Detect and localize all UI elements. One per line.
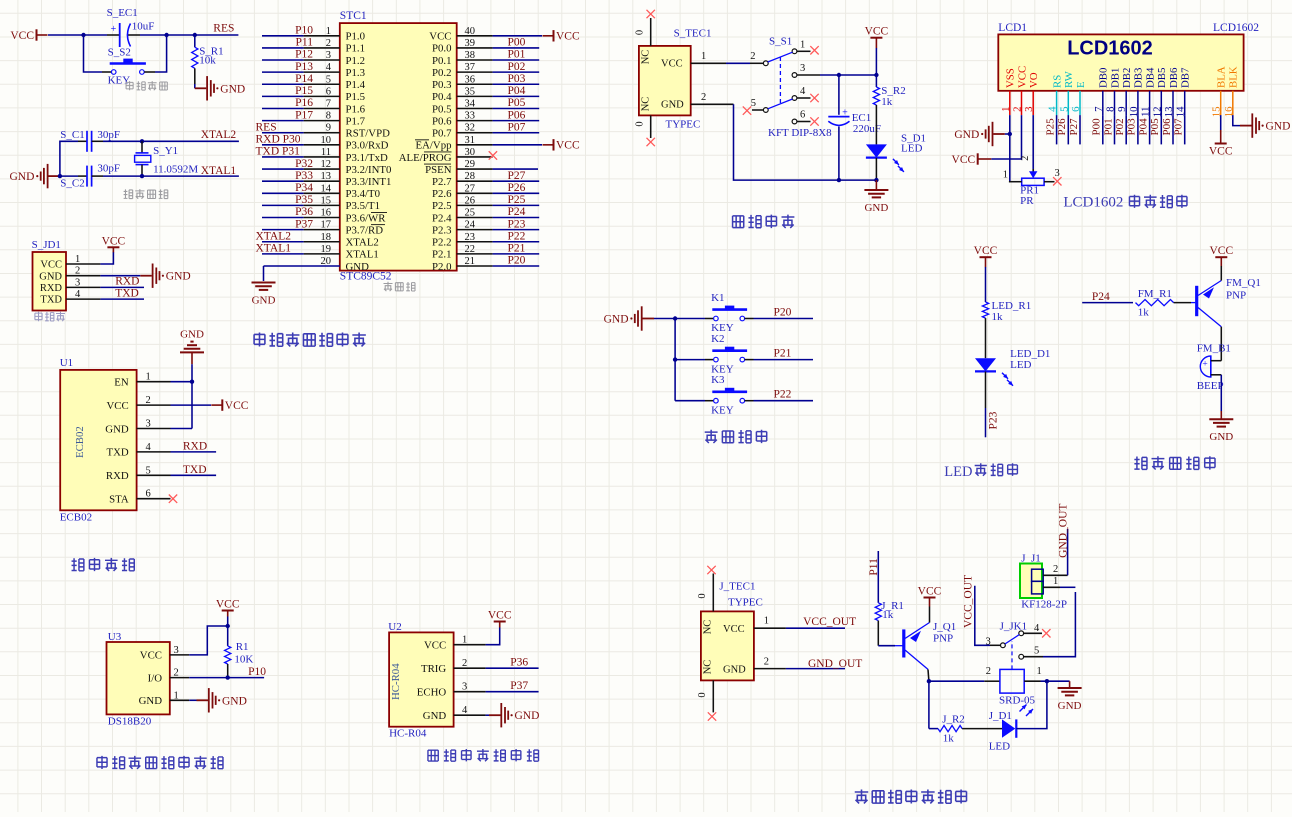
wire pin4 gnd [486, 714, 489, 716]
svg-text:GND: GND [604, 314, 629, 326]
svg-text:+: + [111, 24, 117, 35]
svg-text:P36: P36 [295, 206, 313, 218]
resistor J_R2 1k [938, 725, 962, 731]
wire to VCC [493, 35, 542, 37]
wire S_C1 to XTAL2 [103, 140, 142, 142]
svg-text:EN: EN [114, 377, 129, 389]
svg-text:VCC: VCC [952, 154, 976, 166]
power port GND (power circuit) [875, 180, 877, 189]
capacitor S_EC1 10uF (polarized) [107, 34, 120, 36]
svg-text:VCC: VCC [556, 31, 580, 43]
svg-text:4: 4 [800, 86, 806, 97]
svg-text:P21: P21 [774, 348, 792, 360]
svg-text:PR: PR [1020, 195, 1034, 207]
wire TXD [100, 298, 144, 300]
svg-text:P0.6: P0.6 [432, 115, 452, 127]
svg-text:VO: VO [1028, 72, 1040, 88]
svg-text:VCC: VCC [140, 650, 162, 662]
no-connect X pin30 [489, 151, 497, 159]
wire [493, 120, 540, 122]
svg-text:P23: P23 [988, 411, 1000, 429]
pin 0 top with X [650, 18, 652, 46]
svg-text:P33: P33 [295, 170, 313, 182]
svg-text:RES: RES [256, 121, 277, 133]
svg-text:GND: GND [346, 261, 370, 273]
svg-text:TYPEC: TYPEC [728, 596, 763, 608]
svg-text:2: 2 [1020, 156, 1031, 161]
svg-text:XTAL2: XTAL2 [346, 237, 379, 249]
wire [262, 132, 304, 134]
svg-text:ECB02: ECB02 [60, 512, 92, 524]
svg-text:RXD P30: RXD P30 [256, 134, 301, 146]
capacitor S_C2 30pF [78, 175, 87, 177]
title 环境温度采集模块 [97, 756, 107, 769]
svg-text:P06: P06 [1161, 118, 1173, 136]
svg-text:P1.6: P1.6 [346, 103, 366, 115]
wire [493, 192, 540, 194]
wire [262, 253, 304, 255]
wire lcd pin [1114, 115, 1116, 144]
svg-text:VCC: VCC [40, 260, 62, 271]
svg-text:RST/VPD: RST/VPD [346, 128, 391, 140]
svg-text:P01: P01 [1102, 118, 1114, 135]
wire [262, 83, 304, 85]
power port GND (U1) [180, 342, 204, 353]
power port VCC (led) [980, 256, 992, 258]
svg-text:RS: RS [1051, 75, 1063, 88]
svg-text:P3.7/RD: P3.7/RD [346, 224, 384, 236]
svg-text:KEY: KEY [711, 404, 734, 416]
svg-text:P0.4: P0.4 [432, 91, 452, 103]
svg-text:P25: P25 [1044, 118, 1056, 136]
svg-text:P3.1/TxD: P3.1/TxD [346, 152, 388, 164]
resistor S_R2 1k [875, 75, 877, 87]
svg-text:P26: P26 [1056, 118, 1068, 136]
wire [493, 47, 540, 49]
svg-text:P20: P20 [774, 307, 792, 319]
svg-text:3: 3 [75, 277, 80, 288]
wire resistor to led [875, 105, 877, 144]
title 下载口 [35, 312, 42, 321]
wire S_C2 to XTAL1 [103, 175, 239, 177]
svg-text:0: 0 [697, 593, 708, 598]
power port GND (crystal) [41, 164, 60, 188]
svg-text:S_EC1: S_EC1 [107, 7, 138, 19]
title 按键电路 [705, 430, 718, 443]
power port VCC (U2) [494, 621, 506, 623]
svg-text:LED: LED [901, 142, 922, 154]
svg-text:LCD1602: LCD1602 [1067, 38, 1153, 60]
svg-text:DB6: DB6 [1168, 67, 1180, 88]
svg-text:6: 6 [800, 110, 805, 121]
wire pin1 to switch [726, 62, 750, 64]
svg-text:P20: P20 [508, 255, 526, 267]
svg-text:DS18B20: DS18B20 [108, 716, 152, 728]
svg-text:1k: 1k [1138, 307, 1150, 319]
svg-text:6: 6 [146, 489, 151, 500]
svg-text:TXD P31: TXD P31 [256, 146, 301, 158]
svg-text:P2.1: P2.1 [432, 249, 452, 261]
svg-text:GND: GND [222, 695, 247, 707]
wire down-left branch to key [84, 35, 103, 72]
svg-text:P0.1: P0.1 [432, 55, 452, 67]
svg-text:DB3: DB3 [1133, 68, 1145, 88]
wire buzzer to gnd [1220, 375, 1222, 411]
wire key to RES net [155, 35, 167, 72]
wire lcd pin [1172, 115, 1174, 144]
svg-text:P02: P02 [508, 61, 526, 73]
svg-text:P36: P36 [510, 657, 528, 669]
wire [493, 95, 540, 97]
svg-text:GND: GND [180, 329, 204, 341]
svg-text:J_R2: J_R2 [942, 714, 965, 726]
svg-text:ALE/PROG: ALE/PROG [399, 152, 452, 164]
wire VCC to S_EC1 [48, 34, 107, 36]
svg-text:LED: LED [989, 740, 1010, 752]
svg-text:S_C1: S_C1 [60, 129, 84, 141]
svg-text:P1.7: P1.7 [346, 115, 366, 127]
svg-text:XTAL1: XTAL1 [201, 165, 237, 177]
junction node [1008, 132, 1012, 136]
svg-text:P2.6: P2.6 [432, 188, 452, 200]
svg-text:P07: P07 [508, 121, 526, 133]
svg-text:GND: GND [1058, 700, 1082, 712]
svg-text:HC-R04: HC-R04 [389, 728, 427, 740]
svg-text:P01: P01 [508, 49, 526, 61]
svg-text:P0.7: P0.7 [432, 128, 452, 140]
svg-text:BLK: BLK [1228, 66, 1240, 88]
svg-text:VCC: VCC [424, 640, 446, 652]
svg-text:VCC: VCC [225, 400, 249, 412]
led J_D1 [1002, 719, 1015, 737]
wire pin4 RXD [171, 451, 217, 453]
wire pin2 P10 [189, 677, 264, 679]
svg-text:VCC: VCC [106, 400, 128, 412]
svg-text:FM_B1: FM_B1 [1197, 343, 1231, 355]
svg-text:+: + [842, 108, 848, 119]
wire led to junction [1016, 681, 1047, 728]
svg-text:3: 3 [1055, 168, 1060, 179]
svg-text:GND: GND [661, 100, 684, 111]
power port VCC (relay) [924, 597, 936, 599]
wire pin2 P36 [486, 667, 539, 669]
svg-text:NC: NC [703, 660, 714, 675]
wire [262, 59, 304, 61]
capacitor EC1 220uF [838, 75, 840, 115]
svg-text:1k: 1k [943, 732, 955, 744]
svg-text:VCC: VCC [1209, 145, 1233, 157]
svg-text:P13: P13 [295, 61, 313, 73]
svg-text:GND: GND [954, 129, 979, 141]
wire [262, 35, 304, 37]
switch S_S2 KEY [111, 70, 116, 75]
switch K1 KEY [675, 318, 705, 320]
svg-text:1: 1 [701, 51, 706, 62]
lead key right pin [144, 71, 155, 73]
wire pin2 to VCC [171, 404, 212, 406]
wire gnd to keys [654, 318, 675, 320]
pot pin3 lead with X [1044, 181, 1054, 183]
svg-text:I/O: I/O [148, 672, 163, 684]
svg-text:P06: P06 [508, 109, 526, 121]
svg-text:3: 3 [174, 645, 179, 656]
wire pin2 gnd rail [734, 104, 877, 180]
wire [493, 241, 540, 243]
junction node [673, 316, 677, 320]
wire pin1 gnd [189, 699, 196, 701]
led S_D1 [866, 144, 887, 157]
svg-text:4: 4 [146, 442, 152, 453]
wire lcd pin [1102, 115, 1104, 144]
resistor S_R1 10k [194, 35, 196, 47]
svg-text:DB4: DB4 [1144, 67, 1156, 88]
relay SRD-05 [984, 680, 1000, 682]
svg-text:BEEP: BEEP [1197, 380, 1224, 392]
svg-text:P23: P23 [508, 218, 526, 230]
wire to VCC [493, 144, 542, 146]
svg-text:P1.5: P1.5 [346, 91, 366, 103]
svg-text:XTAL1: XTAL1 [256, 243, 292, 255]
power port GND (mcu) [252, 283, 276, 290]
svg-text:0: 0 [635, 30, 646, 35]
pin 2 GND [691, 103, 734, 105]
svg-text:KF128-2P: KF128-2P [1021, 598, 1067, 610]
svg-text:DB2: DB2 [1121, 68, 1133, 88]
svg-text:P34: P34 [295, 182, 313, 194]
power port VCC (U1) [211, 404, 222, 406]
power port VCC (S_JD1) [107, 246, 119, 248]
svg-text:GND: GND [9, 171, 34, 183]
svg-text:GND: GND [39, 271, 62, 282]
resistor LED_R1 1k [982, 302, 988, 318]
svg-text:P3.6/WR: P3.6/WR [346, 212, 387, 224]
svg-text:LED: LED [1010, 359, 1031, 371]
svg-text:P00: P00 [508, 37, 526, 49]
resistor J_R1 1k [875, 603, 881, 621]
svg-text:P02: P02 [1114, 118, 1126, 135]
wire resistor to led [985, 318, 987, 358]
wire [754, 400, 814, 402]
svg-text:J_Q1: J_Q1 [933, 621, 956, 633]
wire [262, 95, 304, 97]
capacitor S_C1 30pF [78, 140, 87, 142]
wire lcd pin [1056, 115, 1058, 144]
svg-text:K1: K1 [711, 292, 724, 304]
no-connect X STA [169, 495, 177, 503]
buzzer FM_B1 BEEP [1200, 356, 1211, 377]
pin 1 VCC_OUT [754, 627, 786, 629]
svg-text:XTAL1: XTAL1 [346, 249, 379, 261]
junction node [1045, 679, 1049, 683]
svg-text:TXD: TXD [40, 295, 62, 306]
wire [262, 107, 304, 109]
svg-text:2: 2 [750, 51, 755, 62]
svg-text:LCD1602: LCD1602 [1063, 195, 1123, 211]
svg-text:P22: P22 [774, 389, 792, 401]
wire cap to junction [140, 34, 167, 36]
svg-text:P17: P17 [295, 109, 313, 121]
power port VCC [543, 144, 554, 146]
svg-text:2: 2 [701, 92, 706, 103]
svg-text:RXD: RXD [106, 470, 129, 482]
wire [493, 265, 540, 267]
svg-text:P1.4: P1.4 [346, 79, 366, 91]
svg-text:GND: GND [723, 665, 746, 676]
wire pin3 [171, 428, 193, 430]
wire [262, 204, 304, 206]
wire [675, 359, 705, 361]
svg-text:1k: 1k [992, 311, 1004, 323]
svg-text:VCC: VCC [216, 599, 240, 611]
wire pin5 TXD [171, 474, 217, 476]
wire [493, 132, 540, 134]
svg-text:NC: NC [703, 620, 714, 635]
wire pin1 [171, 381, 193, 383]
wire lcd pin1 VSS [1009, 115, 1011, 182]
svg-text:GND: GND [166, 271, 191, 283]
svg-text:+: + [1202, 360, 1207, 370]
junction node [837, 73, 841, 77]
junction node [140, 174, 144, 178]
svg-text:P3.2/INT0: P3.2/INT0 [346, 164, 392, 176]
potentiometer PR1 body [1022, 178, 1044, 185]
svg-text:VCC: VCC [1016, 66, 1028, 88]
svg-text:5: 5 [146, 465, 151, 476]
title 晶振电路 [124, 189, 133, 198]
wire R1 to P10 [227, 664, 229, 678]
title 电源电路 [733, 216, 744, 228]
svg-text:DB5: DB5 [1156, 68, 1168, 88]
wire lcd pin [1160, 115, 1162, 144]
svg-text:TXD: TXD [115, 288, 139, 300]
junction node [81, 33, 85, 37]
wire [493, 229, 540, 231]
wire lcd pin3 VO to wiper [1032, 115, 1034, 169]
relay dashed actuator link [1011, 641, 1013, 669]
pot pin1 lead [1009, 181, 1022, 183]
lead to led [962, 728, 1002, 730]
svg-text:10k: 10k [199, 55, 216, 67]
svg-text:1: 1 [462, 635, 467, 646]
wire lcd pin [1149, 115, 1151, 144]
svg-text:P15: P15 [295, 85, 313, 97]
svg-text:4: 4 [462, 705, 468, 716]
wire pin2 to GND [100, 275, 140, 277]
svg-text:11.0592M: 11.0592M [153, 164, 198, 176]
svg-text:VCC_OUT: VCC_OUT [803, 616, 856, 628]
svg-text:RXD: RXD [40, 283, 63, 294]
wire [262, 120, 304, 122]
svg-text:K2: K2 [711, 333, 724, 345]
svg-text:P26: P26 [508, 182, 526, 194]
svg-text:FM_Q1: FM_Q1 [1226, 277, 1261, 289]
svg-text:GND: GND [105, 423, 129, 435]
wire vcc to resistor [985, 267, 987, 302]
power port VCC [543, 35, 554, 37]
svg-text:P10: P10 [248, 666, 266, 678]
svg-text:VCC: VCC [974, 245, 998, 257]
power port GND (buzzer) [1209, 419, 1233, 426]
pin 2 GND_OUT [754, 668, 786, 670]
svg-text:KEY: KEY [108, 75, 131, 87]
wire vcc to emitter [929, 607, 931, 623]
wire pin3 P37 [486, 691, 539, 693]
svg-text:10K: 10K [234, 654, 253, 666]
svg-text:0: 0 [697, 692, 708, 697]
svg-text:GND: GND [864, 202, 888, 214]
svg-text:PNP: PNP [1226, 290, 1246, 302]
svg-text:P2.5: P2.5 [432, 200, 452, 212]
svg-text:P12: P12 [295, 49, 313, 61]
wire [262, 241, 304, 243]
svg-text:P0.2: P0.2 [432, 67, 452, 79]
mcu STC89C52 body [340, 23, 457, 271]
svg-text:P3.0/RxD: P3.0/RxD [346, 140, 389, 152]
svg-text:3: 3 [800, 63, 805, 74]
potentiometer PR1 wiper arrow [1029, 171, 1037, 178]
svg-text:U2: U2 [388, 621, 401, 633]
svg-text:VCC_OUT: VCC_OUT [963, 575, 975, 628]
svg-text:S_Y1: S_Y1 [153, 145, 178, 157]
led LED_D1 [975, 358, 996, 371]
svg-text:S_TEC1: S_TEC1 [674, 28, 712, 40]
svg-text:1: 1 [800, 40, 805, 51]
svg-text:P21: P21 [508, 243, 526, 255]
svg-text:NC: NC [641, 50, 652, 65]
wire [493, 217, 540, 219]
svg-text:GND: GND [252, 295, 276, 307]
svg-text:P25: P25 [508, 194, 526, 206]
wire [493, 253, 540, 255]
wire vcc to pin3 [189, 626, 228, 655]
wire led row left [929, 728, 938, 730]
wire pin2 GND_OUT [1067, 529, 1069, 575]
wire [754, 318, 814, 320]
junction node [874, 73, 878, 77]
svg-text:2: 2 [1053, 564, 1058, 575]
junction node [58, 174, 62, 178]
svg-text:VCC: VCC [723, 624, 745, 635]
svg-text:1: 1 [764, 616, 769, 627]
svg-text:P10: P10 [295, 25, 313, 37]
svg-text:2: 2 [986, 666, 991, 677]
power port VCC (U3) [222, 610, 234, 612]
resistor R1 10K [227, 626, 229, 646]
junction node [193, 33, 197, 37]
wire VCC down [875, 48, 877, 75]
svg-text:P0.0: P0.0 [432, 43, 452, 55]
power port VCC (buzzer) [1215, 256, 1227, 258]
junction node [140, 139, 144, 143]
svg-text:P3.4/T0: P3.4/T0 [346, 188, 381, 200]
svg-text:P1.0: P1.0 [346, 31, 366, 43]
svg-text:P04: P04 [1137, 118, 1149, 136]
wire P24 to resistor [1082, 302, 1133, 304]
wire pin3 to VCC_OUT [990, 644, 1000, 646]
svg-text:VSS: VSS [1005, 68, 1017, 88]
junction node [226, 675, 230, 679]
wire lcd pin [1184, 115, 1186, 144]
svg-text:SRD-05: SRD-05 [999, 694, 1036, 706]
J_J1 pin1 lead [1043, 586, 1060, 588]
svg-text:P2.2: P2.2 [432, 237, 452, 249]
svg-text:P37: P37 [295, 218, 313, 230]
svg-text:P05: P05 [1149, 118, 1161, 136]
pin 1 VCC [691, 62, 726, 64]
svg-text:2: 2 [75, 266, 80, 277]
svg-text:P2.0: P2.0 [432, 261, 452, 273]
svg-text:XTAL2: XTAL2 [201, 129, 237, 141]
